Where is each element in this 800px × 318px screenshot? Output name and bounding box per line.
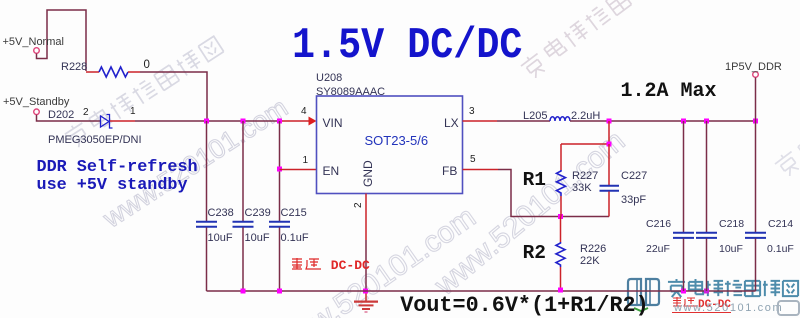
formula Vout=0.6V*(1+R1/R2) [400, 295, 649, 317]
faint diagonal url watermark left [99, 94, 292, 233]
wire standby port to diode anode [37, 115, 101, 121]
wire +5V_Normal loop to R228 [37, 10, 87, 71]
note kao-jin DC-DC small (red, bottom right) [672, 296, 731, 313]
logo text (CJK) [667, 279, 800, 301]
capacitor C227 [608, 144, 610, 185]
C218 value 10uF [719, 244, 743, 255]
capacitor C239 [242, 121, 244, 221]
pin name EN [323, 165, 340, 177]
C216 value 22uF [646, 244, 670, 255]
logo book icon [624, 274, 668, 314]
D202 value PMEG3050EP/DNI [48, 135, 142, 146]
wire EN pin stub [280, 169, 317, 171]
bottom ground bus wire [207, 290, 756, 292]
capacitor C215 [279, 121, 281, 221]
faint diagonal watermark top-right [519, 0, 675, 81]
node +5V_Normal label [3, 37, 64, 48]
corner button shape [777, 300, 800, 318]
port +5V_Standby [34, 109, 40, 115]
junction dots on output net [607, 119, 612, 124]
C239 value 10uF [245, 233, 270, 244]
D202 pin 2 [83, 108, 89, 118]
C238 value 10uF [208, 233, 233, 244]
wire diode cathode to node [110, 120, 135, 122]
junction dot FB node [558, 214, 563, 219]
node junction dots on VIN net [204, 119, 209, 124]
junction dot divider top [607, 142, 612, 147]
capacitor C216 [683, 121, 685, 232]
pin name VIN [323, 117, 343, 129]
C214 value 0.1uF [767, 244, 794, 255]
wire FB pin stub [463, 169, 499, 171]
faint diagonal url watermark center [430, 126, 631, 301]
junction dots on bus [241, 289, 246, 294]
diode D202 [101, 116, 110, 127]
resistor R226 [560, 217, 562, 243]
wire FB to divider [498, 170, 609, 217]
U208 reference [316, 73, 342, 84]
resistor R227 label [572, 171, 598, 182]
R226 value 22K [580, 256, 600, 267]
junction dot R2 at bus [558, 288, 563, 293]
port +5V_Normal [34, 48, 40, 54]
wire R228 to VIN node [140, 72, 207, 121]
wire LX net to output [570, 120, 756, 122]
capacitor C214 [755, 121, 757, 232]
resistor R228 [86, 71, 99, 73]
pin number 2 rotated [354, 202, 364, 208]
capacitor C238 [206, 121, 208, 221]
wire GND pin 2 [365, 194, 367, 241]
pin name FB [442, 165, 457, 177]
capacitor C218 [706, 121, 708, 232]
inductor L205 [550, 117, 570, 121]
junction dot EN tap [277, 167, 282, 172]
wire LX pin stub [463, 120, 498, 122]
U208 package SOT23-5/6 [365, 134, 429, 147]
wire VIN pin stub [280, 120, 311, 122]
faint diagonal url watermark bottom-left [270, 202, 481, 318]
title 1.5V DC/DC [292, 25, 522, 69]
wire top divider branch [608, 121, 610, 144]
wire port riser [755, 78, 757, 122]
capacitor C227 label [621, 171, 647, 182]
faint diagonal watermark top-left [63, 34, 224, 149]
capacitor C216 label [646, 219, 671, 230]
pin number 1 [303, 156, 309, 166]
note 1.2A Max [621, 82, 717, 102]
C215 value 0.1uF [281, 233, 309, 244]
inductor L205 label [523, 111, 547, 122]
diode D202 label [48, 110, 74, 121]
node +5V_Standby label [3, 97, 69, 108]
pin number 4 [301, 107, 307, 117]
op-amp U208 IC body [317, 96, 463, 194]
R228 value 0 [144, 60, 150, 72]
resistor R228 label [61, 62, 87, 73]
logo url text [674, 303, 783, 314]
pin arrow into VIN [309, 117, 317, 126]
capacitor C239 label [245, 208, 271, 219]
D202 pin 1 [130, 107, 136, 117]
note kao-jin DC-DC (red) [291, 257, 370, 272]
capacitor C214 label [768, 219, 793, 230]
note R1 [523, 171, 546, 191]
junction dot GND at bus [363, 289, 368, 294]
L205 value 2.2uH [571, 111, 600, 122]
pin number 5 [470, 155, 476, 165]
U208 value SY8089AAAC [316, 87, 385, 98]
resistor R226 label [580, 244, 606, 255]
faint diagonal watermark right-edge [773, 54, 800, 179]
pin name LX [444, 117, 459, 129]
capacitor C218 label [719, 219, 744, 230]
pin number 3 [469, 107, 475, 117]
capacitor C238 label [208, 208, 234, 219]
capacitor C215 label [281, 208, 307, 219]
note R2 [523, 244, 546, 264]
resistor R227 [560, 144, 562, 170]
C227 value 33pF [621, 195, 646, 206]
ground [365, 291, 367, 301]
node 1P5V_DDR label [725, 62, 782, 73]
note use +5V standby [37, 178, 188, 195]
text layer [0, 0, 800, 1]
watermark layer [0, 0, 800, 1]
note DDR Self-refresh [37, 160, 198, 177]
pin name GND rotated [362, 160, 374, 187]
R227 value 33K [572, 183, 592, 194]
port 1P5V_DDR [753, 72, 759, 78]
